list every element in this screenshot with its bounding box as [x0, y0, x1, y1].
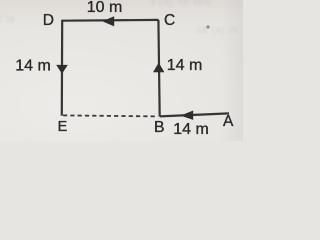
faint bleed-through text top-right — [150, 0, 211, 7]
faint bleed-through text right — [196, 25, 239, 35]
faint bleed-through left edge — [0, 14, 16, 24]
svg-text:10 m: 10 m — [87, 0, 123, 16]
wire D-E (left vertical, 14 m) — [61, 20, 64, 116]
svg-text:E: E — [58, 119, 68, 135]
svg-text:D: D — [43, 12, 54, 29]
wire D-C (top, 10 m) — [62, 19, 158, 22]
svg-text:14 m: 14 m — [15, 58, 51, 75]
arrowhead on D-C pointing left — [102, 16, 114, 26]
svg-text:14 m: 14 m — [167, 57, 203, 74]
svg-text:B: B — [154, 119, 165, 136]
small dot artifact near C — [206, 25, 209, 28]
wire A-B (bottom, 14 m) — [160, 113, 229, 116]
wire C-B (right vertical, 14 m) — [158, 20, 159, 117]
svg-text:C: C — [164, 12, 175, 29]
arrowhead on A-B pointing left — [181, 111, 194, 120]
arrowhead on D-E pointing down — [56, 65, 68, 74]
svg-text:A: A — [223, 113, 234, 130]
arrowhead on C-B pointing up — [153, 63, 164, 73]
dashed wire E-B — [63, 115, 158, 116]
svg-text:14 m: 14 m — [173, 121, 209, 138]
